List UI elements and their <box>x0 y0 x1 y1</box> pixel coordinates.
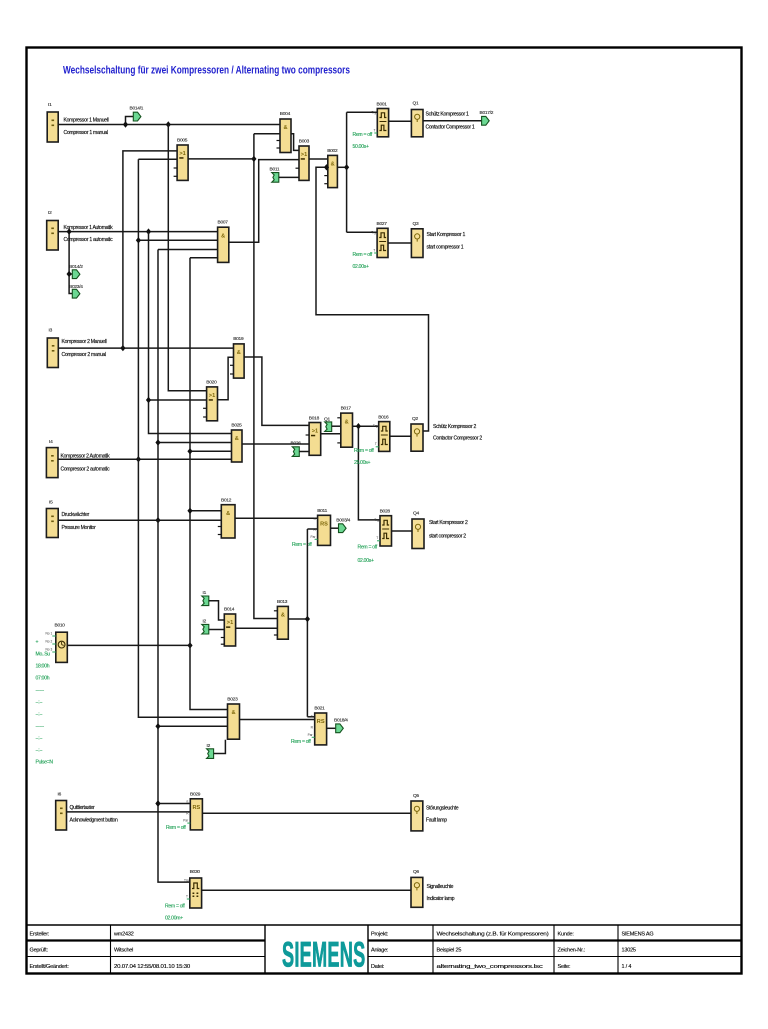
svg-text:B018: B018 <box>309 415 320 421</box>
wire I2flag to B014.in2 <box>209 629 225 631</box>
svg-text:Q5: Q5 <box>413 793 419 799</box>
SIEMENS logo <box>282 935 365 974</box>
and-gate B002 <box>324 148 338 188</box>
svg-text:Contactor Compressor 1: Contactor Compressor 1 <box>426 124 475 130</box>
svg-text:--:--: --:-- <box>36 712 43 718</box>
timer B016 <box>373 414 390 451</box>
svg-text:Rem = off: Rem = off <box>354 448 374 454</box>
and-gate B025 <box>231 423 242 462</box>
svg-text:Q3: Q3 <box>413 221 419 227</box>
svg-text:25.00s+: 25.00s+ <box>354 460 370 466</box>
svg-text:Schütz Kompressor 1: Schütz Kompressor 1 <box>426 112 469 118</box>
input I1 <box>47 102 108 142</box>
svg-text:Pulse=N: Pulse=N <box>36 760 54 766</box>
svg-text:S: S <box>311 714 313 718</box>
svg-text:Start Kompressor 2: Start Kompressor 2 <box>429 520 468 526</box>
svg-text:wm2432: wm2432 <box>113 932 134 938</box>
svg-text:07:00h: 07:00h <box>36 676 50 682</box>
wire riser to B014/1 <box>126 117 134 125</box>
svg-text:Trg: Trg <box>184 879 189 883</box>
svg-text:B007: B007 <box>218 220 229 226</box>
node bus6-b <box>187 508 192 514</box>
svg-text:1 / 4: 1 / 4 <box>622 964 632 970</box>
node B013-out <box>305 616 310 622</box>
svg-text:SIEMENS AG: SIEMENS AG <box>622 932 654 938</box>
node bus3-a <box>146 397 151 403</box>
timer B001 <box>372 101 389 137</box>
svg-text:Pressure Monitor: Pressure Monitor <box>62 525 97 531</box>
svg-text:B012: B012 <box>221 498 232 504</box>
svg-text:I2: I2 <box>207 743 211 749</box>
wire B011flag to B003.in4 <box>279 176 299 178</box>
and-gate B012 <box>218 498 235 538</box>
wire I2bflag to B023.in4 <box>214 740 226 754</box>
svg-text:I3: I3 <box>49 328 53 334</box>
svg-text:Rem = off: Rem = off <box>292 542 312 548</box>
wire B030 out to Q6 <box>202 889 411 891</box>
svg-text:Erstellt/Geändert:: Erstellt/Geändert: <box>30 964 70 970</box>
timer B027 <box>371 221 388 258</box>
wire Q1 out to flag <box>423 120 482 122</box>
svg-text:I6: I6 <box>58 792 62 798</box>
or-gate B020 <box>203 379 217 421</box>
and-gate B019 <box>230 336 244 378</box>
svg-text:B004: B004 <box>280 111 291 117</box>
node I5-a <box>155 517 160 523</box>
svg-text:Wechselschaltung für zwei Komp: Wechselschaltung für zwei Kompressoren /… <box>63 65 350 77</box>
or-gate B018 <box>306 415 321 455</box>
wire I6 out <box>67 811 191 813</box>
svg-text:>1: >1 <box>227 620 233 626</box>
input I3 <box>47 328 106 368</box>
svg-text:02.00m+: 02.00m+ <box>165 915 183 921</box>
output Q1 <box>411 101 474 137</box>
svg-text:--:--: --:-- <box>36 736 43 742</box>
svg-text:Ersteller:: Ersteller: <box>30 932 50 938</box>
svg-text:Start Kompressor 1: Start Kompressor 1 <box>427 232 466 238</box>
svg-text:B005: B005 <box>177 138 188 144</box>
wire B027 out <box>388 242 411 244</box>
rs-latch B021 <box>308 706 327 745</box>
svg-text:Beispiel 25: Beispiel 25 <box>437 948 462 954</box>
svg-text:B018/4: B018/4 <box>334 718 348 724</box>
svg-text:+: + <box>36 640 39 646</box>
rs-latch B029 <box>183 791 202 829</box>
node bus7-a <box>251 156 256 162</box>
svg-text:B003: B003 <box>299 139 310 145</box>
svg-text:B025: B025 <box>231 423 242 429</box>
wire B019 out to B018.in1 <box>244 357 309 425</box>
flag I2b source <box>207 743 214 758</box>
svg-text:&: & <box>345 419 349 425</box>
output Q2 <box>411 416 482 451</box>
node B017-out <box>356 423 361 429</box>
svg-text:Acknowledgment button: Acknowledgment button <box>70 817 119 823</box>
svg-text:S: S <box>314 517 316 521</box>
node I2-a <box>67 228 72 234</box>
svg-text:50.00s+: 50.00s+ <box>353 144 369 150</box>
svg-text:&: & <box>237 350 241 356</box>
and-gate B023 <box>227 697 239 740</box>
svg-text:Zeichen-Nr.:: Zeichen-Nr.: <box>558 948 586 954</box>
svg-text:Mo..Su: Mo..Su <box>36 652 51 658</box>
flag B026 source <box>291 441 302 457</box>
svg-text:Trg: Trg <box>371 231 376 235</box>
node I1-b <box>166 121 171 127</box>
svg-text:Störungsleuchte: Störungsleuchte <box>426 806 459 812</box>
flag B014/2 <box>69 264 83 279</box>
svg-text:Geprüft:: Geprüft: <box>30 948 49 954</box>
wire I1 out <box>58 124 280 126</box>
svg-text:Rem = off: Rem = off <box>291 739 311 745</box>
wire B004 out to B003.in1 <box>291 134 299 151</box>
node B002-out <box>344 164 349 170</box>
node B029-S <box>155 800 160 806</box>
wire B025 out to B018.in3 <box>242 443 309 445</box>
svg-text:RS: RS <box>320 522 328 528</box>
svg-text:I2: I2 <box>48 210 52 216</box>
svg-text:Rem = off: Rem = off <box>165 903 185 909</box>
svg-text:--:--: --:-- <box>36 700 43 706</box>
clock block B010 <box>46 623 68 663</box>
svg-text:RS: RS <box>317 719 325 725</box>
svg-text:Witschel: Witschel <box>114 948 133 954</box>
flag B003/4 <box>336 517 350 532</box>
svg-text:Trg: Trg <box>373 424 378 428</box>
svg-text:&: & <box>221 233 225 239</box>
input I6 <box>56 792 118 831</box>
svg-text:B002: B002 <box>327 148 338 154</box>
svg-text:B010: B010 <box>55 623 66 629</box>
wire I2 out <box>58 231 217 233</box>
svg-text:B014/2: B014/2 <box>69 264 83 270</box>
svg-text:&: & <box>331 161 335 167</box>
svg-text:>1: >1 <box>209 393 215 399</box>
node I4-a <box>136 456 141 462</box>
svg-text:B021: B021 <box>314 706 325 712</box>
wire bus I4 to B005.in3 B007.in2 B023.in2 <box>138 158 177 160</box>
wire B012 out to B011.S <box>235 517 318 519</box>
svg-text:Trg: Trg <box>374 518 379 522</box>
wire B026flag to B018.in4 <box>299 451 309 453</box>
and-gate B007 <box>218 220 229 263</box>
flag I2 source <box>202 618 209 634</box>
svg-text:Rem = off: Rem = off <box>353 252 373 258</box>
svg-text:Rem = off: Rem = off <box>166 825 186 831</box>
svg-text:18:00h: 18:00h <box>36 664 50 670</box>
node I1-a <box>123 121 128 127</box>
svg-text:------: ------ <box>36 688 45 694</box>
wire bus I1 to B020.in1 <box>168 125 206 391</box>
wire B018 out to B017.in3 <box>321 433 341 435</box>
svg-text:&: & <box>283 125 287 131</box>
svg-text:Kompressor 2 Manuell: Kompressor 2 Manuell <box>62 339 107 345</box>
svg-text:Compressor 1 manual: Compressor 1 manual <box>64 130 109 136</box>
and-gate B013 <box>274 599 288 639</box>
svg-text:02.00s+: 02.00s+ <box>358 558 374 564</box>
input I2 <box>47 210 113 250</box>
wire B005 out <box>188 158 254 160</box>
node bus5-a <box>155 439 160 445</box>
svg-text:T: T <box>375 442 377 446</box>
svg-text:Q1: Q1 <box>413 101 419 107</box>
svg-text:Trg: Trg <box>372 111 377 115</box>
timer B028 <box>374 509 391 546</box>
wire bus I3 to B005.in2 <box>123 151 177 348</box>
wire bus I2 to B020.in2 B025.in1 <box>149 232 232 434</box>
node I2-b <box>146 228 151 234</box>
svg-text:Contactor Compressor 2: Contactor Compressor 2 <box>433 435 482 441</box>
svg-text:No 2: No 2 <box>46 640 53 644</box>
and-gate B004 <box>277 111 292 152</box>
or-gate B003 <box>296 139 310 181</box>
flag B014/1 <box>130 106 144 122</box>
or-gate B014 <box>221 606 236 646</box>
svg-text:I5: I5 <box>49 500 53 506</box>
svg-text:B003/4: B003/4 <box>336 517 350 523</box>
svg-text:S: S <box>186 800 188 804</box>
svg-text:T: T <box>374 129 376 133</box>
svg-text:>1: >1 <box>179 151 185 157</box>
input I4 <box>46 439 110 478</box>
or-gate B005 <box>174 138 189 181</box>
timer B030 <box>184 869 202 908</box>
wire B029 out to Q5 <box>202 812 411 814</box>
svg-text:I1: I1 <box>203 590 207 596</box>
svg-text:I2: I2 <box>203 618 207 624</box>
node bus6-a <box>187 448 192 454</box>
wire I2 down to flags <box>69 232 72 294</box>
wire Q2 feedback to B002.in2 <box>316 167 429 431</box>
wire B028 out <box>392 530 413 532</box>
wire B021 out to flag <box>327 727 336 729</box>
svg-text:Compressor 1 automatic: Compressor 1 automatic <box>64 237 114 243</box>
svg-text:B019: B019 <box>233 336 244 342</box>
svg-text:start compressor 1: start compressor 1 <box>427 245 464 251</box>
svg-text:B014: B014 <box>224 606 235 612</box>
svg-text:B020: B020 <box>206 379 217 385</box>
svg-text:Kompressor 1 Automatik: Kompressor 1 Automatik <box>64 225 114 231</box>
wire B017 out to B016 and riser to B028 <box>353 425 379 427</box>
svg-text:Projekt:: Projekt: <box>371 932 389 938</box>
output Q5 <box>411 793 459 831</box>
svg-text:alternating_two_compressors.ls: alternating_two_compressors.lsc <box>437 964 544 970</box>
svg-text:B013: B013 <box>277 599 288 605</box>
wire B003 out <box>309 158 328 160</box>
svg-text:Anlage:: Anlage: <box>371 948 389 954</box>
svg-text:Indicator lamp: Indicator lamp <box>427 896 455 902</box>
svg-text:B017: B017 <box>341 406 352 412</box>
svg-text:B027: B027 <box>377 221 388 227</box>
wire I4 out <box>58 458 232 460</box>
wire B007 out riser to B003.in2 <box>229 160 299 243</box>
flag I1 source <box>202 590 209 606</box>
svg-text:Rem = off: Rem = off <box>353 132 373 138</box>
svg-text:&: & <box>281 613 285 619</box>
svg-text:I4: I4 <box>49 439 53 445</box>
wire B013 out riser to B011.R and B021.S <box>288 618 307 620</box>
wire B014 out to B013.in3 <box>236 627 278 629</box>
node B010-a <box>187 642 192 648</box>
wire B002 out riser to B001 and B027 <box>337 166 346 168</box>
wire I3 out <box>58 347 233 349</box>
svg-text:RS: RS <box>193 805 201 811</box>
svg-text:T: T <box>373 249 375 253</box>
svg-text:B011: B011 <box>317 508 327 514</box>
svg-text:>1: >1 <box>312 429 318 435</box>
wire B020 out riser to B019.in2 <box>218 357 234 399</box>
node bus4-a <box>136 237 141 243</box>
svg-text:Kompressor 1 Manuell: Kompressor 1 Manuell <box>64 118 109 124</box>
output Q3 <box>411 221 465 258</box>
svg-text:B017/2: B017/2 <box>480 110 494 116</box>
svg-text:02.00s+: 02.00s+ <box>353 264 369 270</box>
node I2-c <box>67 271 72 277</box>
wire to B014/2 flag <box>69 273 72 275</box>
output Q6 <box>411 869 455 907</box>
svg-text:Kunde:: Kunde: <box>558 932 575 938</box>
wire B011 out to flag <box>331 527 339 529</box>
node bus5-c <box>155 800 160 806</box>
svg-text:start compressor 2: start compressor 2 <box>429 534 466 540</box>
svg-text:B011: B011 <box>270 167 280 173</box>
svg-text:B028: B028 <box>380 509 391 515</box>
wire bus I5 to B007.in3 B025.in2 B023.in3 B029.S B030.in <box>158 249 218 251</box>
wire B010 out <box>67 644 190 646</box>
svg-text:Q4: Q4 <box>413 511 419 517</box>
svg-text:T: T <box>186 895 188 899</box>
svg-text:B023: B023 <box>227 697 238 703</box>
svg-text:--:--: --:-- <box>36 748 43 754</box>
svg-text:&: & <box>235 436 239 442</box>
svg-text:Fault lamp: Fault lamp <box>426 818 447 824</box>
flag B023/4 <box>69 284 83 298</box>
rs-latch B011 <box>311 508 331 546</box>
wire B016 out <box>390 435 411 437</box>
wire bus B010 to B007.in4 B025.in3 B012.in1 B023.in1 <box>190 257 218 259</box>
wire Q1flag to B017.in2 <box>332 425 341 427</box>
input I5 <box>46 500 96 538</box>
svg-text:B016: B016 <box>378 414 389 420</box>
svg-text:I1: I1 <box>48 102 52 108</box>
svg-text:&: & <box>226 511 230 517</box>
svg-text:Seite:: Seite: <box>558 964 572 970</box>
svg-text:B030: B030 <box>190 869 201 875</box>
node B002-in <box>324 164 329 170</box>
svg-text:Compressor 2 automatic: Compressor 2 automatic <box>61 467 111 473</box>
svg-text:SIEMENS: SIEMENS <box>282 935 365 974</box>
B010 parameter text <box>36 640 54 766</box>
svg-text:Datei:: Datei: <box>371 964 385 970</box>
node I3-a <box>120 345 125 351</box>
svg-text:>1: >1 <box>301 152 307 158</box>
svg-text:Druckwächter: Druckwächter <box>62 512 90 518</box>
svg-text:Quittiertaster: Quittiertaster <box>70 805 96 811</box>
svg-text:------: ------ <box>36 724 45 730</box>
svg-text:Wechselschaltung (z.B. für Kom: Wechselschaltung (z.B. für Kompressoren) <box>437 932 549 938</box>
flag B018/4 <box>334 718 348 733</box>
svg-text:Compressor 2 manual: Compressor 2 manual <box>62 352 107 358</box>
output Q4 <box>412 511 468 549</box>
title block frame <box>26 924 742 926</box>
and-gate B017 <box>337 406 352 448</box>
node bus5-b <box>155 723 160 729</box>
wire I1flag to B014.in1 <box>209 601 225 620</box>
svg-text:20.07.04 12:55/08.01.10 15:30: 20.07.04 12:55/08.01.10 15:30 <box>114 964 190 970</box>
svg-text:B014/1: B014/1 <box>130 106 144 112</box>
svg-text:Schütz Kompressor 2: Schütz Kompressor 2 <box>433 424 476 430</box>
svg-text:T: T <box>376 536 378 540</box>
svg-text:&: & <box>231 710 235 716</box>
wire B023 out to B021 <box>240 719 315 721</box>
svg-text:Q2: Q2 <box>412 416 418 422</box>
flag B011 source <box>270 167 280 183</box>
svg-text:B001: B001 <box>377 101 388 107</box>
svg-text:B029: B029 <box>190 791 201 797</box>
wire bus B005out to B004.in2 B013.in2 <box>254 133 280 135</box>
svg-text:Signalleuchte: Signalleuchte <box>427 884 454 890</box>
svg-text:Rem = off: Rem = off <box>358 544 378 550</box>
flag Q1 source <box>324 416 332 431</box>
svg-text:B026: B026 <box>291 441 302 447</box>
wire B001 out <box>389 120 412 122</box>
svg-text:No 1: No 1 <box>46 632 53 636</box>
flag B017/2 <box>480 110 494 125</box>
svg-text:13025: 13025 <box>622 948 636 954</box>
wire I5 out <box>58 519 221 521</box>
svg-text:Q6: Q6 <box>413 869 419 875</box>
